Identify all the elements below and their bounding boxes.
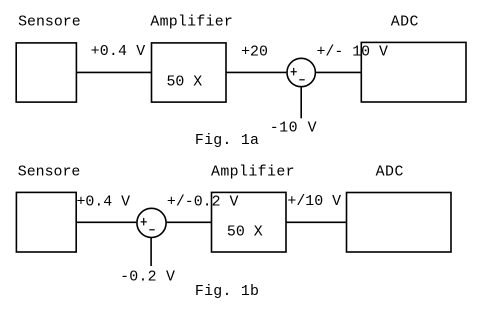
svg-text:-10 V: -10 V (270, 120, 317, 136)
svg-text:+/- 10 V: +/- 10 V (317, 45, 389, 61)
sensor block (Fig 1b) (16, 192, 76, 252)
amplifier block U1 (Fig 1a) (152, 43, 227, 102)
amplifier block U1 (Fig 1b) (212, 192, 287, 252)
plus sign in summer (Fig 1b) (141, 218, 147, 226)
svg-text:Fig. 1a: Fig. 1a (195, 133, 259, 149)
summing junction (Fig 1a) (287, 58, 315, 86)
svg-text:Sensore: Sensore (18, 165, 81, 181)
svg-text:-0.2 V: -0.2 V (120, 270, 175, 286)
ADC block (Fig 1b) (347, 193, 452, 253)
summing junction (Fig 1b) (137, 208, 166, 237)
svg-text:+20: +20 (241, 45, 268, 61)
wire summer offset input (Fig 1b) (150, 238, 152, 266)
svg-text:+0.4 V: +0.4 V (77, 195, 131, 211)
wire amplifier to summer (Fig 1a) (226, 71, 286, 73)
svg-text:ADC: ADC (391, 15, 419, 31)
svg-text:Sensore: Sensore (18, 15, 81, 31)
minus sign in summer (Fig 1b) (149, 229, 154, 231)
svg-text:Fig. 1b: Fig. 1b (195, 284, 259, 300)
wire sensor to summer (Fig 1b) (76, 221, 136, 223)
svg-text:+0.4 V: +0.4 V (91, 44, 146, 60)
svg-text:+/-0.2 V: +/-0.2 V (167, 195, 239, 211)
wire summer to ADC (Fig 1a) (316, 71, 361, 73)
wire summer offset input (Fig 1a) (300, 87, 302, 118)
svg-text:+/10 V: +/10 V (287, 194, 341, 210)
svg-text:50 X: 50 X (167, 74, 203, 90)
plus sign in summer (Fig 1a) (291, 68, 297, 76)
wire amplifier to ADC (Fig 1b) (286, 221, 347, 223)
svg-text:Amplifier: Amplifier (211, 165, 295, 181)
svg-text:ADC: ADC (376, 165, 404, 181)
svg-text:Amplifier: Amplifier (150, 15, 233, 31)
wire sensor to amplifier (Fig 1a) (76, 71, 151, 73)
minus sign in summer (Fig 1a) (299, 79, 304, 81)
svg-text:50 X: 50 X (227, 224, 263, 240)
ADC block (Fig 1a) (361, 42, 466, 102)
sensor block (Fig 1a) (16, 43, 76, 102)
wire summer to amplifier (Fig 1b) (167, 221, 212, 223)
